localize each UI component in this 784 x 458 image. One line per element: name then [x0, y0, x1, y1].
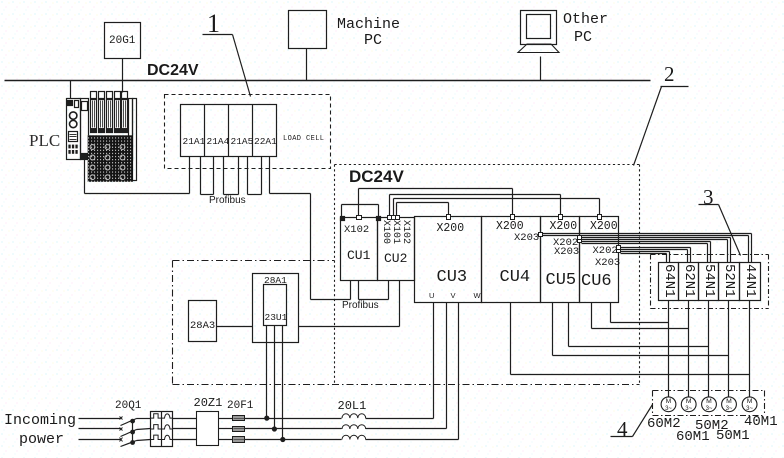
- svg-text:3~: 3~: [665, 406, 672, 412]
- svg-text:M: M: [686, 398, 692, 405]
- svg-text:3~: 3~: [726, 406, 733, 412]
- svg-text:3~: 3~: [706, 406, 713, 412]
- svg-text:M: M: [666, 398, 672, 405]
- svg-text:3~: 3~: [685, 406, 692, 412]
- svg-text:3~: 3~: [746, 406, 753, 412]
- svg-text:M: M: [726, 398, 732, 405]
- svg-text:M: M: [747, 398, 753, 405]
- svg-text:M: M: [706, 398, 712, 405]
